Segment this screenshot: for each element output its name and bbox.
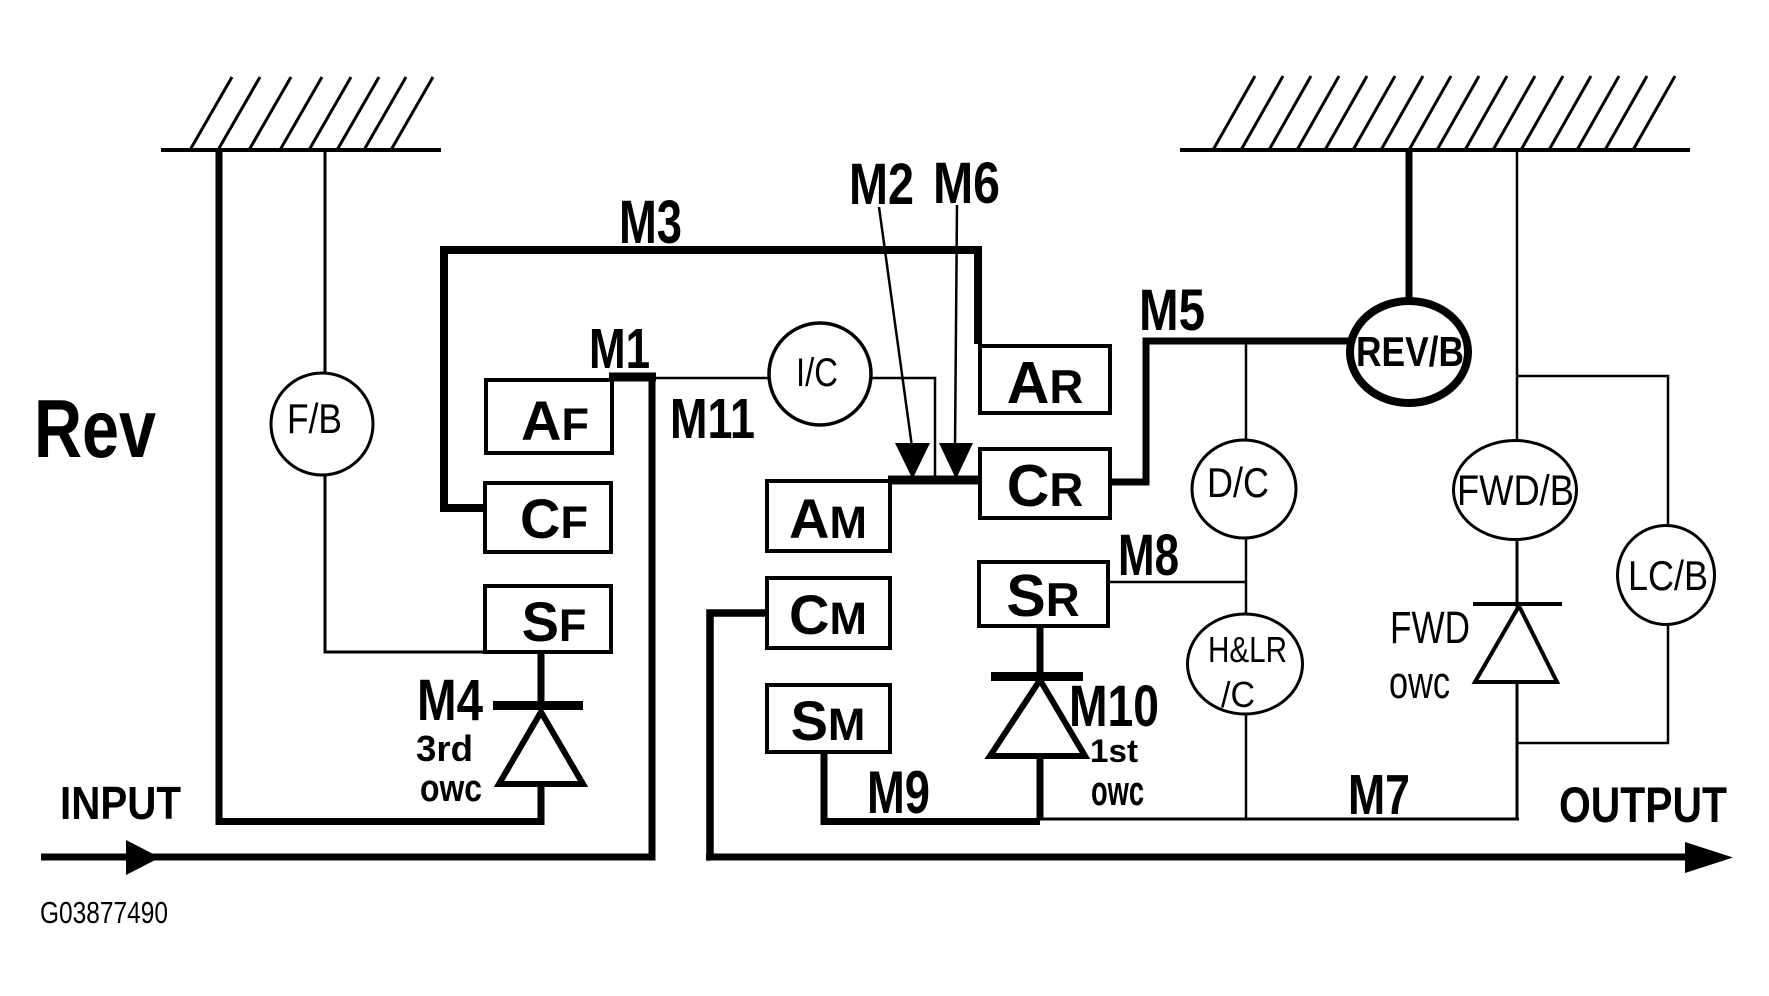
wire M6 line: [955, 205, 957, 447]
box SR (rear seal): [979, 562, 1108, 629]
box CR (rear clutch): [980, 449, 1110, 519]
svg-text:M5: M5: [1139, 278, 1205, 343]
svg-text:M1: M1: [589, 317, 650, 381]
svg-text:H&LR: H&LR: [1208, 629, 1287, 670]
svg-text:M3: M3: [619, 188, 682, 256]
circle F/B (front band): [271, 373, 373, 475]
svg-text:F/B: F/B: [287, 395, 342, 442]
arrowhead M2: [895, 443, 930, 479]
wire: junction bar under M2 M6 arrowheads between AM and CR: [888, 476, 980, 485]
box CM (middle clutch): [767, 578, 890, 648]
svg-text:CM: CM: [789, 583, 867, 646]
svg-text:D/C: D/C: [1207, 459, 1269, 506]
svg-text:M9: M9: [867, 759, 930, 826]
wire M7 thin line: [1040, 818, 1519, 821]
box AM (middle accumulator): [767, 481, 890, 551]
arrowhead INPUT: [126, 840, 160, 875]
circle REV/B (reverse band, applied): [1350, 301, 1468, 403]
svg-text:I/C: I/C: [796, 351, 838, 395]
wire M2 slanted line: [879, 207, 912, 447]
wire: branch to LC/B top: [1517, 376, 1668, 530]
circle I/C (input clutch): [769, 323, 871, 425]
svg-text:/C: /C: [1221, 674, 1255, 715]
svg-text:M8: M8: [1118, 523, 1179, 588]
svg-text:AR: AR: [1007, 350, 1084, 416]
box SF (front clutch seal): [485, 586, 611, 653]
svg-text:OUTPUT: OUTPUT: [1559, 777, 1727, 833]
wire: INPUT shaft line: [41, 854, 656, 861]
svg-text:owc: owc: [1091, 767, 1144, 814]
ground symbol right: [1180, 76, 1690, 150]
svg-text:CF: CF: [520, 487, 588, 550]
wire: F/B lower stem to SF left: [325, 470, 483, 652]
svg-text:M2: M2: [849, 152, 914, 217]
svg-text:LC/B: LC/B: [1628, 552, 1708, 599]
box CF (front clutch): [485, 483, 611, 552]
svg-text:1st: 1st: [1090, 733, 1138, 769]
ground symbol left: [161, 77, 441, 150]
svg-text:SF: SF: [522, 590, 587, 653]
wire: M5 down through D/C and H&LR/C to M7 line: [1245, 341, 1248, 818]
box AR (rear accumulator): [980, 346, 1110, 416]
wire M1 thin from bar to I/C and down to junction bar: [654, 378, 935, 478]
svg-text:SR: SR: [1006, 563, 1079, 629]
svg-text:AF: AF: [521, 389, 589, 452]
arrowhead M6: [939, 443, 973, 479]
svg-text:M4: M4: [417, 668, 483, 733]
box SM (middle seal): [767, 685, 890, 752]
circle FWD/B (forward band): [1454, 441, 1577, 540]
wire M9 from SM bottom to M10 owc bottom: [821, 754, 1041, 822]
svg-text:SM: SM: [791, 689, 866, 752]
wire: F/B upper stem from ground: [324, 150, 327, 380]
diode FWD owc: [1473, 535, 1562, 819]
wire M8 from SR right to D/C line: [1110, 581, 1247, 584]
diode M10 1st owc: [990, 628, 1085, 819]
circle H&LR/C (high and low reverse clutch): [1188, 614, 1303, 715]
circle LC/B (low coast band): [1618, 526, 1715, 625]
wire: LC/B bottom loop to FWD owc bottom: [1517, 620, 1668, 743]
svg-text:M10: M10: [1069, 674, 1159, 739]
wire M1 bar at AF top right: [609, 373, 656, 382]
svg-text:Rev: Rev: [34, 382, 156, 475]
svg-text:owc: owc: [1389, 657, 1450, 708]
svg-text:M11: M11: [670, 387, 755, 451]
box AF (front clutch accumulator): [486, 380, 612, 453]
wire: CR right to M5 to REV/B: [1112, 341, 1350, 486]
wire: OUTPUT shaft line: [706, 854, 1690, 861]
svg-text:owc: owc: [420, 768, 482, 810]
svg-text:3rd: 3rd: [416, 728, 473, 769]
svg-text:INPUT: INPUT: [60, 777, 181, 829]
wire: CM left connection down to output shaft: [707, 613, 766, 861]
wire: FWD/B stem from ground: [1516, 150, 1519, 445]
svg-text:G03877490: G03877490: [40, 895, 168, 930]
wire M3 from CF up and right to AR top: [444, 250, 978, 508]
svg-text:AM: AM: [789, 487, 867, 550]
svg-text:FWD: FWD: [1390, 602, 1470, 653]
diode M4 3rd owc: [493, 654, 583, 825]
wire: left main line from ground down and right to M4 owc: [216, 150, 545, 822]
circle D/C (direct clutch): [1192, 440, 1296, 538]
wire M11 vertical from M1 bar down to input line: [649, 377, 656, 857]
svg-text:CR: CR: [1007, 453, 1084, 519]
svg-text:M7: M7: [1348, 763, 1410, 827]
arrowhead OUTPUT: [1685, 842, 1733, 873]
wire: REV/B stem from ground: [1406, 150, 1413, 310]
svg-text:M6: M6: [933, 151, 1000, 216]
svg-text:FWD/B: FWD/B: [1457, 467, 1574, 515]
svg-text:REV/B: REV/B: [1356, 328, 1464, 375]
